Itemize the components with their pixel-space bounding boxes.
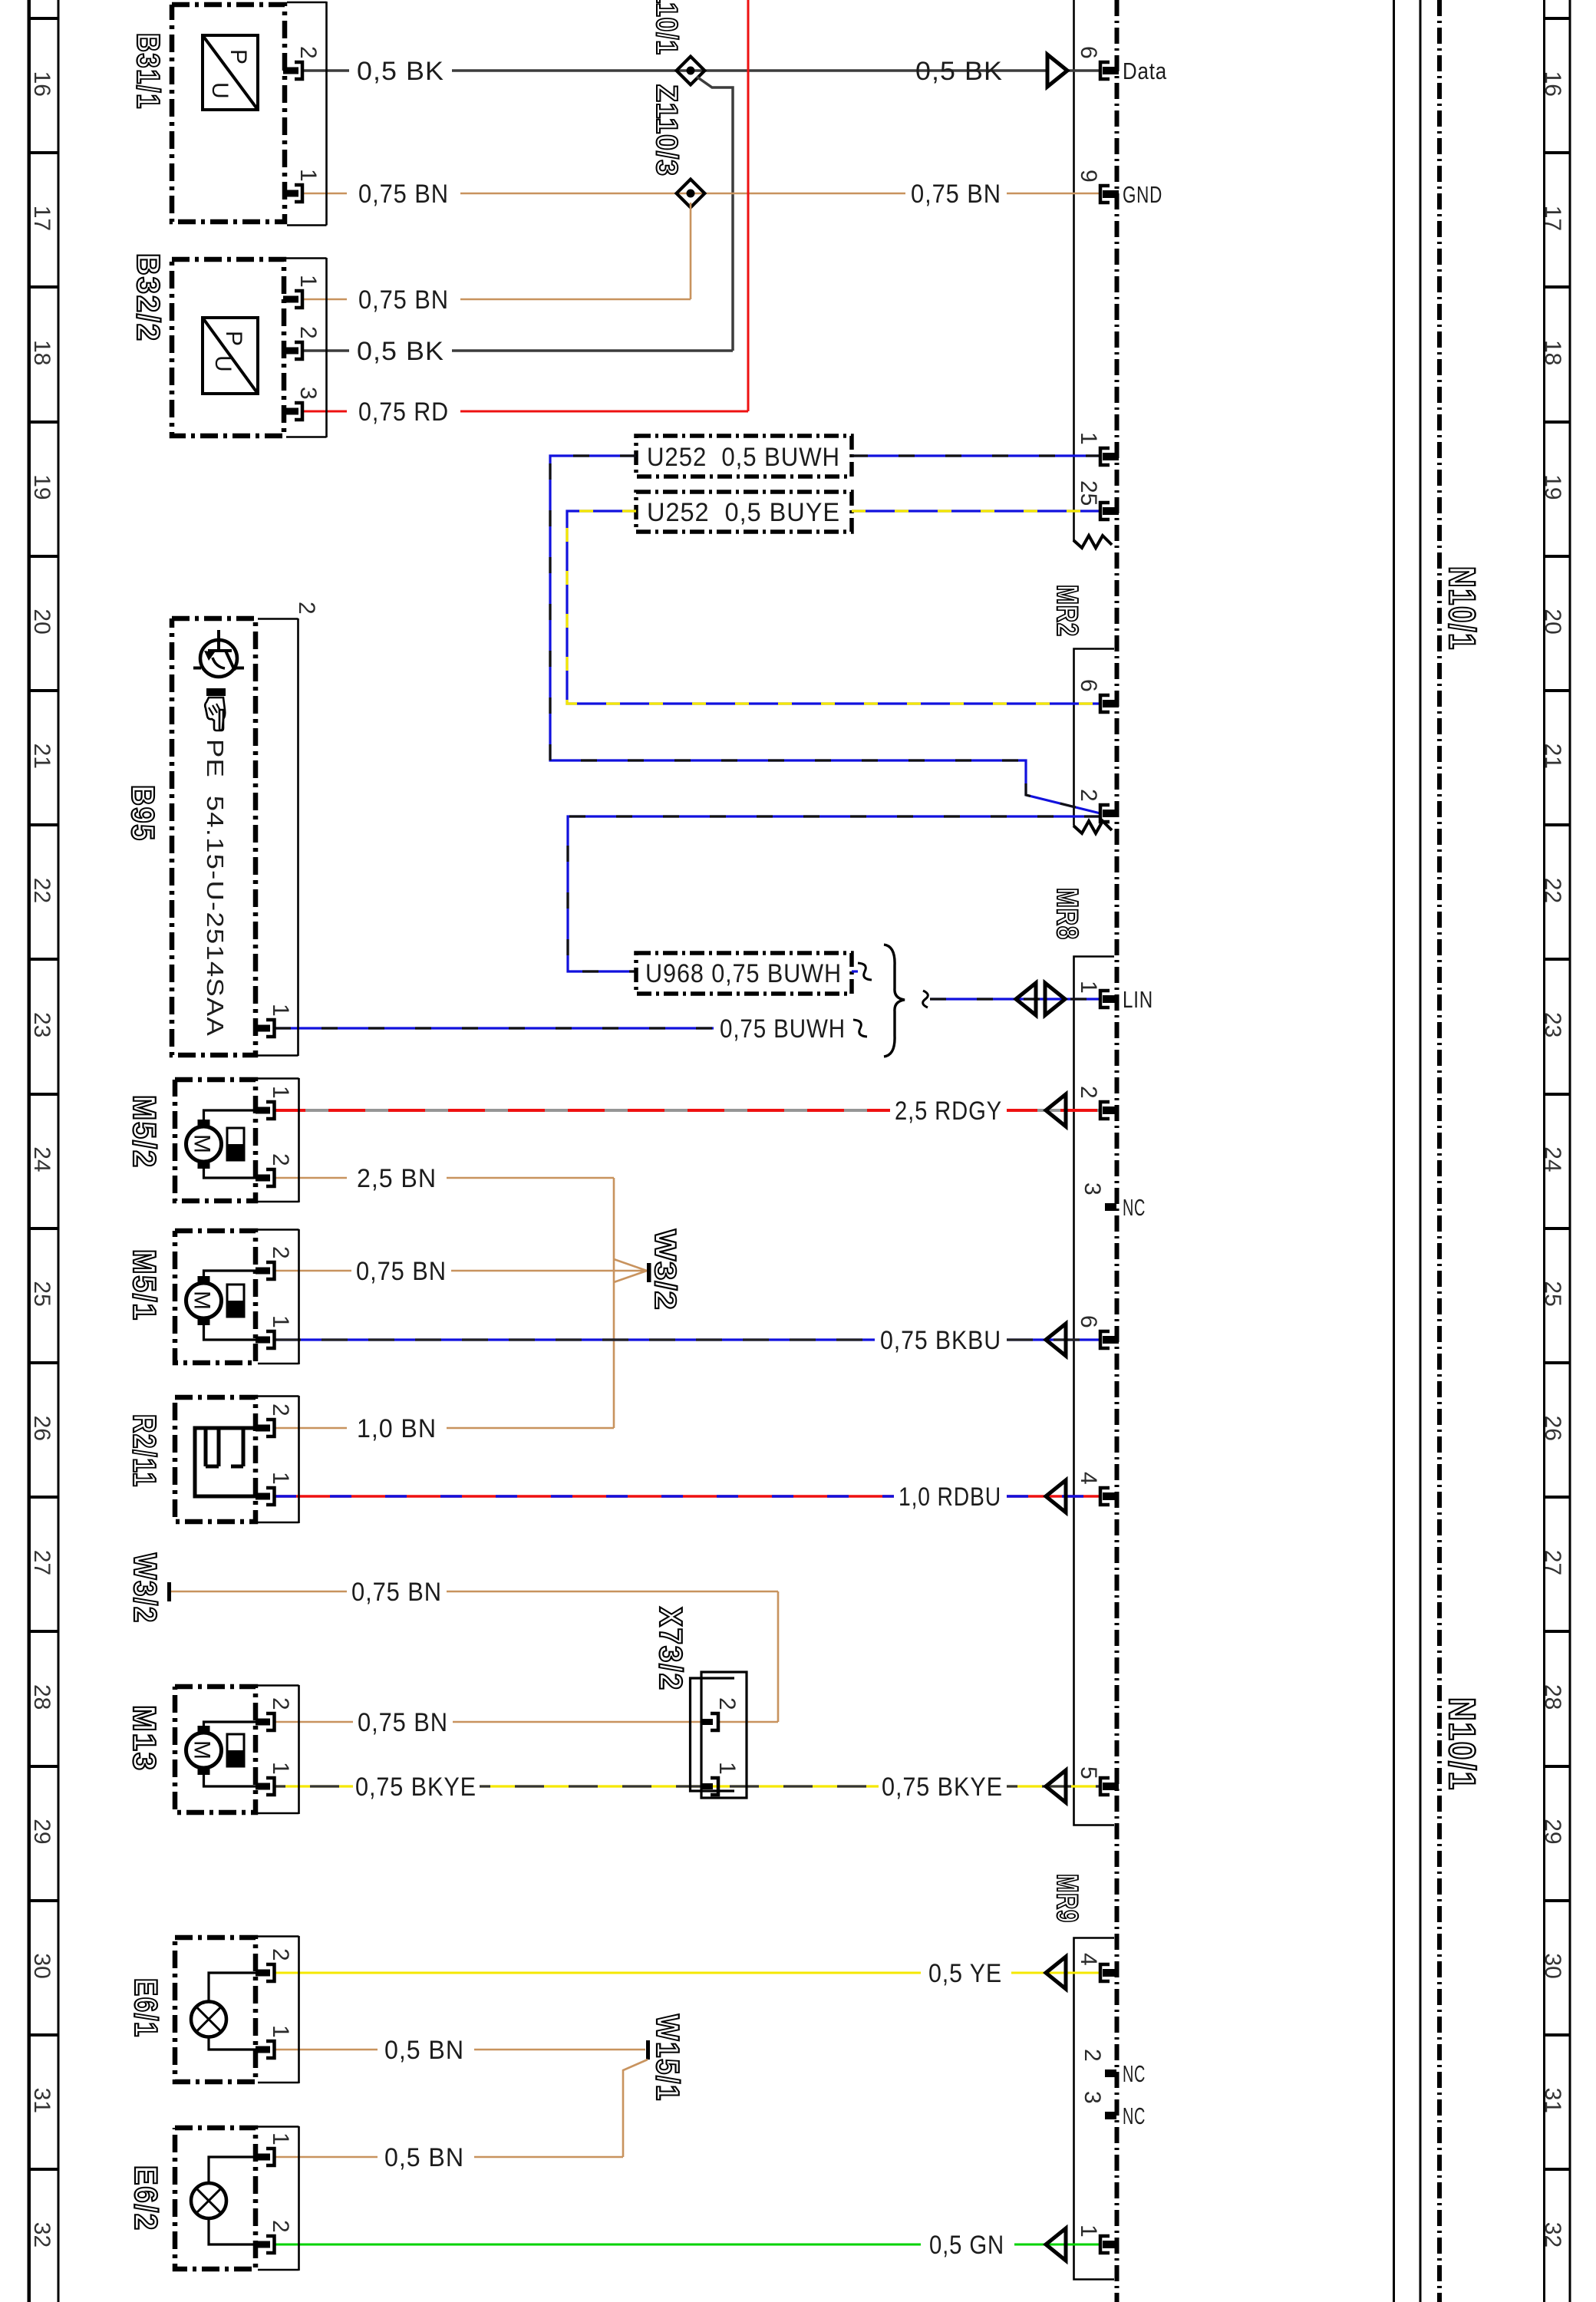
wire 0,75 BKYE from M13 pin1 through X73/2 pin1 to MR8 pin5: [275, 1785, 1100, 1787]
M5/1 pin strip: [258, 1229, 299, 1364]
svg-text:1: 1: [268, 1004, 293, 1017]
E6/2 pin 1: [266, 2149, 275, 2165]
B31/1 pin 2: [295, 62, 302, 79]
MR8 pin 6: [1100, 1331, 1110, 1348]
svg-text:28: 28: [29, 1684, 54, 1710]
label box U252 0,5 BUYE: [636, 492, 852, 532]
svg-text:1: 1: [295, 169, 321, 182]
svg-text:9: 9: [1076, 170, 1101, 183]
svg-text:Z110/3: Z110/3: [650, 84, 683, 176]
svg-text:E6/1: E6/1: [128, 1978, 164, 2038]
B95 pin 1: [266, 1020, 275, 1037]
control unit N10/1 left border dash-dot: [1115, 0, 1120, 2302]
MR8 pin 2: [1100, 1102, 1110, 1119]
svg-text:M: M: [190, 1134, 215, 1153]
svg-text:2: 2: [295, 326, 321, 339]
svg-text:0,5 BK: 0,5 BK: [357, 57, 444, 86]
svg-text:0,75 BN: 0,75 BN: [351, 1578, 442, 1607]
wire 0,5 BN from E6/1 pin1 to W15/1: [275, 2049, 645, 2051]
splice Z110/1 diamond: [677, 57, 705, 85]
pin 1 (top connector): [1100, 448, 1110, 465]
svg-text:M: M: [190, 1740, 215, 1759]
MR9 pin 1: [1100, 2236, 1110, 2253]
svg-text:0,75 BUWH: 0,75 BUWH: [720, 1014, 846, 1044]
wire 0,75 RD from B32/2 pin3 up to top: [302, 0, 748, 411]
svg-text:5: 5: [1076, 1766, 1101, 1779]
B32/2 pin 2: [295, 342, 302, 359]
svg-text:E6/2: E6/2: [128, 2165, 164, 2231]
svg-text:1,0 RDBU: 1,0 RDBU: [899, 1482, 1001, 1512]
svg-text:2: 2: [1076, 1086, 1101, 1099]
svg-text:27: 27: [29, 1550, 54, 1575]
svg-text:U252 0,5 BUYE: U252 0,5 BUYE: [647, 498, 840, 527]
svg-text:NC: NC: [1123, 2102, 1146, 2129]
svg-text:2: 2: [295, 46, 321, 59]
svg-text:1: 1: [268, 1086, 293, 1099]
wire 2,5 RDGY from M5/2 pin1 to MR8 pin2: [275, 1109, 1100, 1112]
MR9 pin 2 NC: [1105, 2069, 1116, 2077]
svg-text:W3/2: W3/2: [127, 1553, 163, 1624]
M5/2 internal wiring: [204, 1110, 256, 1178]
M13 internal wiring: [204, 1722, 256, 1786]
svg-text:0,5 BN: 0,5 BN: [384, 2036, 464, 2065]
component E6/1 box: [175, 1938, 256, 2082]
M5/2 motor symbol: [186, 1126, 222, 1162]
svg-text:0,75 BN: 0,75 BN: [358, 1708, 448, 1737]
svg-text:29: 29: [29, 1819, 54, 1844]
svg-text:29: 29: [1540, 1819, 1565, 1844]
svg-text:1: 1: [268, 1315, 293, 1328]
svg-text:W3/2: W3/2: [648, 1229, 681, 1311]
svg-text:2: 2: [268, 1246, 293, 1259]
component E6/2 box: [175, 2128, 256, 2269]
M5/2 pin 1: [266, 1102, 275, 1119]
svg-text:0,75 BKYE: 0,75 BKYE: [355, 1773, 476, 1802]
right inner frame double line: [1393, 0, 1395, 2302]
MR9 pin 4: [1100, 1964, 1110, 1981]
svg-text:18: 18: [29, 340, 54, 365]
svg-text:0,75 RD: 0,75 RD: [358, 397, 449, 427]
svg-text:25: 25: [1076, 480, 1101, 506]
svg-text:4: 4: [1076, 1953, 1101, 1966]
R2/11 pin 2: [266, 1420, 275, 1436]
wire 0,5 GN from E6/2 pin2 to MR9 pin1: [275, 2244, 1100, 2246]
component M5/2 box: [175, 1080, 256, 1201]
svg-text:1,0 BN: 1,0 BN: [357, 1414, 437, 1443]
svg-text:2: 2: [268, 1403, 293, 1416]
wire to LIN pin (blue/black): [930, 998, 1100, 1000]
svg-text:4: 4: [1076, 1472, 1101, 1485]
svg-text:GND: GND: [1123, 181, 1162, 208]
svg-text:6: 6: [1076, 46, 1101, 59]
svg-text:U968 0,75 BUWH: U968 0,75 BUWH: [645, 959, 842, 988]
pin 6 Data: [1100, 62, 1110, 79]
svg-text:MR9: MR9: [1050, 1874, 1083, 1923]
svg-text:0,75 BKBU: 0,75 BKBU: [880, 1326, 1001, 1355]
svg-text:2: 2: [294, 602, 319, 615]
svg-text:3: 3: [295, 387, 321, 400]
MR8 pin 3 NC: [1105, 1203, 1116, 1211]
svg-text:0,75 BN: 0,75 BN: [356, 1257, 447, 1286]
X73/2 pin 2: [711, 1713, 718, 1730]
svg-text:2: 2: [268, 2220, 293, 2233]
svg-text:22: 22: [29, 878, 54, 903]
MR9 pin 3 NC: [1105, 2112, 1116, 2119]
svg-text:25: 25: [1540, 1281, 1565, 1306]
splice Z110/3 diamond: [677, 180, 705, 208]
svg-text:2: 2: [268, 1153, 293, 1166]
right ruler strip: [1543, 0, 1545, 2302]
W15/1 branch down to E6/2 pin1: [275, 2060, 648, 2157]
wire 0,75 BN branch from Z110/3 to B32/2 pin 1: [302, 203, 691, 299]
MR8 pin 5: [1100, 1778, 1110, 1795]
wire 0,5 BK from B31/1 pin2 to N10/1 Data: [302, 69, 1100, 72]
R2/11 pin 1: [266, 1488, 275, 1505]
svg-text:N10/1: N10/1: [1441, 566, 1482, 651]
svg-text:2: 2: [1076, 789, 1101, 802]
label box U252 0,5 BUWH: [636, 436, 852, 477]
wire U252 0,5 BUWH right segment to pin 1: [852, 454, 1100, 457]
pin 9 GND: [1100, 186, 1110, 203]
connector MR2 box: [1074, 649, 1115, 826]
svg-text:19: 19: [29, 474, 54, 500]
svg-text:20: 20: [1540, 608, 1565, 634]
R2/11 heater resistor symbol: [195, 1428, 256, 1496]
M13 pin 2: [266, 1713, 275, 1730]
svg-text:17: 17: [1540, 206, 1565, 231]
svg-text:1: 1: [268, 1472, 293, 1485]
wire 0,75 BUWH from MR2 pin2 to U968 label: [568, 816, 1100, 971]
ground point W15/1 bar: [646, 2040, 650, 2060]
M5/1 pin 1: [266, 1331, 275, 1348]
svg-text:20: 20: [29, 608, 54, 634]
svg-text:P: P: [226, 49, 251, 64]
svg-text:24: 24: [29, 1146, 54, 1172]
svg-text:0,5 GN: 0,5 GN: [929, 2231, 1004, 2260]
svg-text:MR8: MR8: [1050, 888, 1083, 940]
M5/1 motor symbol: [186, 1283, 222, 1318]
wire 1,0 RDBU from R2/11 pin1 to MR8 pin4: [275, 1495, 1100, 1498]
wire 0,75 BN from B31/1 pin1 to N10/1 GND: [302, 193, 1100, 195]
svg-text:0,5 BK: 0,5 BK: [915, 57, 1003, 86]
svg-text:M5/1: M5/1: [127, 1249, 163, 1321]
pin 25: [1100, 503, 1110, 519]
svg-text:3: 3: [1080, 2091, 1105, 2104]
svg-text:B95: B95: [125, 785, 161, 842]
svg-text:16: 16: [1540, 71, 1565, 97]
W3/2 ground wire 0,75 BN to X73/2 pin 2: [170, 1591, 778, 1722]
svg-text:2,5 RDGY: 2,5 RDGY: [895, 1097, 1002, 1126]
wire 0,5 YE from E6/1 pin2 to MR9 pin4: [275, 1972, 1100, 1974]
B31/1 pin strip: [287, 2, 327, 226]
connector box top (pins 6,9,1,25): [1073, 0, 1075, 542]
svg-text:M13: M13: [127, 1705, 163, 1772]
arrow into Data pin: [1047, 54, 1067, 87]
svg-text:1: 1: [268, 1762, 293, 1775]
svg-text:30: 30: [29, 1953, 54, 1978]
svg-text:1: 1: [1076, 981, 1101, 994]
connector MR8 box: [1074, 957, 1115, 1825]
svg-text:NC: NC: [1123, 1194, 1146, 1221]
svg-text:2: 2: [1080, 2049, 1105, 2062]
MR2 pin 2: [1100, 805, 1110, 822]
MR8 pin 4: [1100, 1488, 1110, 1505]
svg-text:0,75 BN: 0,75 BN: [358, 180, 449, 209]
svg-text:17: 17: [29, 206, 54, 231]
svg-text:2: 2: [714, 1697, 740, 1710]
svg-text:32: 32: [1540, 2222, 1565, 2248]
M13 pin strip: [258, 1685, 299, 1814]
svg-text:27: 27: [1540, 1550, 1565, 1575]
svg-text:3: 3: [1080, 1182, 1105, 1196]
frame left border: [28, 0, 31, 2302]
svg-text:X73/2: X73/2: [653, 1607, 689, 1691]
component M13 box: [175, 1687, 256, 1812]
B95 pin strip: [258, 618, 298, 1056]
svg-text:W15/1: W15/1: [650, 2014, 686, 2102]
svg-text:31: 31: [29, 2088, 54, 2113]
svg-text:21: 21: [29, 744, 54, 769]
E6/1 pin 1: [266, 2041, 275, 2058]
component R2/11 box: [175, 1397, 256, 1522]
connector MR9 box: [1074, 1938, 1115, 2280]
svg-text:1: 1: [268, 2132, 293, 2145]
svg-text:0,75 BN: 0,75 BN: [358, 285, 449, 315]
svg-text:PE 54.15-U-2514SAA: PE 54.15-U-2514SAA: [202, 739, 229, 1037]
svg-text:26: 26: [1540, 1416, 1565, 1441]
svg-text:Z110/1: Z110/1: [650, 0, 683, 55]
R2/11 pin strip: [258, 1396, 299, 1523]
wire U252 0,5 BUYE right segment to pin 25: [852, 510, 1100, 512]
svg-text:23: 23: [1540, 1012, 1565, 1037]
label box U968 0,75 BUWH: [636, 953, 852, 994]
tilde wire end after U968: [852, 970, 858, 972]
svg-text:30: 30: [1540, 1953, 1565, 1978]
svg-text:0,75 BKYE: 0,75 BKYE: [882, 1773, 1003, 1802]
svg-text:1: 1: [268, 2025, 293, 2038]
svg-text:22: 22: [1540, 878, 1565, 903]
E6/2 pin strip: [258, 2126, 299, 2271]
B32/2 pin strip: [286, 258, 327, 437]
M5/1 pin 2: [266, 1262, 275, 1279]
E6/2 pin 2: [266, 2236, 275, 2253]
component B32/2 box: [172, 259, 284, 436]
svg-text:6: 6: [1076, 1315, 1101, 1328]
svg-text:0,75 BN: 0,75 BN: [911, 180, 1001, 209]
svg-text:U252 0,5 BUWH: U252 0,5 BUWH: [647, 443, 840, 472]
break symbol bottom of top connector: [1073, 536, 1112, 548]
MR8 pin 1 LIN: [1100, 991, 1110, 1008]
svg-text:NC: NC: [1123, 2060, 1146, 2087]
svg-text:18: 18: [1540, 340, 1565, 365]
svg-text:0,5 BN: 0,5 BN: [384, 2143, 464, 2172]
B32/2 P/U sensor square: [203, 318, 258, 394]
ground point W3/2 diagonals and bar: [614, 1259, 647, 1282]
MR2 pin 6: [1100, 695, 1110, 712]
break symbol bottom of MR2: [1073, 821, 1112, 833]
wire U252 0,5 BUWH left loop down to MR2 pin 2 (blue/white): [550, 456, 1100, 813]
E6/1 internal wiring: [209, 1973, 256, 2050]
svg-text:B31/1: B31/1: [130, 33, 167, 110]
svg-text:N10/1: N10/1: [1441, 1697, 1482, 1791]
B32/2 pin 3: [295, 403, 302, 420]
svg-text:U: U: [210, 355, 236, 372]
twisted pair symbol: [1016, 983, 1065, 1015]
connector X73/2 two halves: [701, 1672, 747, 1798]
svg-text:31: 31: [1540, 2088, 1565, 2113]
svg-text:16: 16: [29, 71, 54, 97]
B32/2 pin 1: [295, 291, 302, 308]
svg-text:0,5 YE: 0,5 YE: [928, 1959, 1002, 1988]
E6/2 internal wiring: [209, 2157, 256, 2244]
svg-text:1: 1: [1076, 2224, 1101, 2238]
svg-text:U: U: [207, 82, 232, 99]
E6/1 pin 2: [266, 1964, 275, 1981]
svg-text:21: 21: [1540, 744, 1565, 769]
M5/1 internal wiring: [204, 1271, 256, 1340]
B31/1 pin 1: [295, 185, 302, 202]
wire 1,0 BN from R2/11 pin2 to W3/2 vertical: [275, 1427, 614, 1430]
E6/2 lamp symbol: [191, 2183, 226, 2218]
svg-text:2: 2: [268, 1948, 293, 1961]
svg-text:19: 19: [1540, 474, 1565, 500]
svg-text:2,5 BN: 2,5 BN: [357, 1164, 437, 1193]
wire 2,5 BN from M5/2 pin2 to ground point W3/2: [275, 1178, 614, 1428]
wire 0,75 BN from M13 pin2 to X73/2 pin2: [275, 1721, 711, 1723]
M5/2 pin 2: [266, 1169, 275, 1186]
B95 hand (press) symbol: [206, 688, 226, 696]
svg-text:28: 28: [1540, 1684, 1565, 1710]
svg-text:6: 6: [1076, 679, 1101, 692]
svg-text:26: 26: [29, 1416, 54, 1441]
component B31/1 box: [172, 5, 285, 222]
svg-text:23: 23: [29, 1012, 54, 1037]
control unit N10/1 right border dash-dot: [1437, 0, 1442, 2302]
svg-text:Data: Data: [1123, 58, 1167, 84]
B31/1 P/U sensor square: [203, 35, 258, 110]
svg-text:25: 25: [29, 1281, 54, 1306]
wire 0,75 BKBU from M5/1 pin1 to MR8 pin6: [275, 1338, 1100, 1341]
curly brace joining BUWH pair: [884, 945, 905, 1057]
wire 0,75 BUWH from B95 pin 1: [275, 1027, 714, 1029]
wire 0,5 BK branch from Z110/1 to B32/2 pin 2: [302, 77, 733, 351]
M5/2 pin strip: [258, 1078, 299, 1202]
svg-text:M5/2: M5/2: [127, 1095, 163, 1169]
svg-text:2: 2: [268, 1697, 293, 1710]
X73/2 pin 1: [711, 1778, 718, 1795]
M13 motor symbol: [186, 1733, 222, 1768]
E6/1 lamp symbol: [191, 2002, 226, 2037]
component M5/1 box: [175, 1231, 256, 1363]
svg-text:P: P: [221, 331, 246, 346]
svg-text:1: 1: [1076, 432, 1101, 445]
tilde start of LIN wire: [923, 991, 928, 1008]
M13 pin 1: [266, 1778, 275, 1795]
svg-text:LIN: LIN: [1123, 986, 1153, 1013]
component B95 box: [172, 618, 256, 1055]
svg-text:0,5 BK: 0,5 BK: [357, 337, 444, 366]
E6/1 pin strip: [258, 1936, 299, 2083]
svg-text:MR2: MR2: [1050, 585, 1083, 637]
svg-text:1: 1: [295, 275, 321, 288]
wire U252 0,5 BUYE left loop to MR2 pin 6 (blue/yellow): [567, 511, 1100, 704]
svg-text:32: 32: [29, 2222, 54, 2248]
svg-text:R2/11: R2/11: [127, 1414, 163, 1488]
svg-text:24: 24: [1540, 1146, 1565, 1172]
svg-text:B32/2: B32/2: [130, 253, 167, 342]
wire 0,75 BN from M5/1 pin2 to W3/2: [275, 1270, 645, 1272]
svg-text:1: 1: [714, 1762, 740, 1775]
svg-text:M: M: [190, 1291, 215, 1310]
B95 sensor circle symbol: [200, 640, 237, 677]
